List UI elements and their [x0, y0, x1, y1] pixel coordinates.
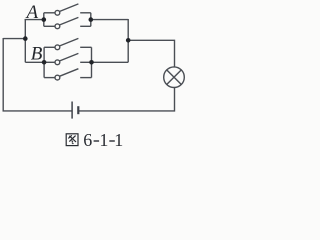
wire: left riser from node between A input and B input: [24, 19, 26, 62]
junction node: merge of A and B outputs: [126, 38, 131, 43]
lamp EL circle: [164, 67, 185, 88]
battery GB long plate: [71, 102, 73, 119]
caption: Chinese character tu (figure) drawn as glyph: [66, 134, 78, 146]
junction node: switch A right bar output: [89, 17, 94, 22]
switch B middle pole stub to contact: [44, 61, 55, 63]
switch B top pole stub to contact: [44, 46, 55, 48]
wire: switch B output to merge riser: [92, 61, 129, 63]
svg-text:B: B: [31, 44, 43, 65]
switch B top right stub: [80, 46, 91, 48]
switch A top right stub: [80, 12, 91, 14]
junction node: switch B left bar input: [42, 60, 47, 65]
switch A left bar: [43, 13, 45, 26]
switch A right bar: [90, 13, 92, 26]
lamp EL cross stroke 2: [167, 70, 182, 85]
switch B middle right stub: [80, 61, 91, 63]
lamp EL cross stroke 1: [167, 70, 182, 85]
switch B right bar: [91, 47, 93, 77]
junction node: switch B right bar output: [89, 60, 94, 65]
wire: merge node to right rail with corner down to lamp: [128, 40, 174, 67]
switch B bottom pole stub to contact: [44, 77, 55, 79]
switch A bottom right stub: [80, 25, 91, 27]
wire: switch A output to merge riser: [91, 19, 128, 21]
svg-text:A: A: [25, 2, 39, 23]
wire: switch A input (from left riser to switch A left bar): [25, 19, 44, 21]
caption: dash 1: [94, 140, 100, 142]
switch A bottom contact circle: [55, 24, 60, 29]
wire: left rail down and bottom wire to battery: [3, 38, 72, 111]
switch B top contact circle: [55, 45, 60, 50]
switch B bottom right stub: [80, 77, 91, 79]
wire: battery to bottom right corner and up right rail to lamp: [78, 88, 174, 111]
switch A top contact circle: [55, 10, 60, 15]
switch B bottom contact circle: [55, 75, 60, 80]
switch B bottom blade (open): [59, 69, 78, 77]
switch A top pole stub to contact: [44, 12, 55, 14]
switch A bottom blade (open): [59, 17, 78, 25]
svg-text:6: 6: [83, 130, 92, 150]
wire: merge riser joining A and B outputs: [127, 19, 129, 62]
svg-text:1: 1: [99, 130, 108, 150]
battery GB short plate: [77, 106, 79, 114]
switch A top blade (open): [59, 4, 78, 12]
wire: branch from left riser to left rail: [3, 38, 25, 40]
junction node: left riser to rail: [23, 36, 28, 41]
switch B left bar: [43, 47, 45, 77]
switch B top blade (open): [59, 38, 78, 46]
switch B middle blade (open): [59, 53, 78, 61]
switch A bottom pole stub to contact: [44, 25, 55, 27]
svg-text:1: 1: [114, 130, 123, 150]
switch B middle contact circle: [55, 60, 60, 65]
caption: dash 2: [109, 140, 115, 142]
junction node: switch A left bar input: [42, 17, 47, 22]
wire: switch B input (from left riser to switch B left bar): [25, 61, 44, 63]
